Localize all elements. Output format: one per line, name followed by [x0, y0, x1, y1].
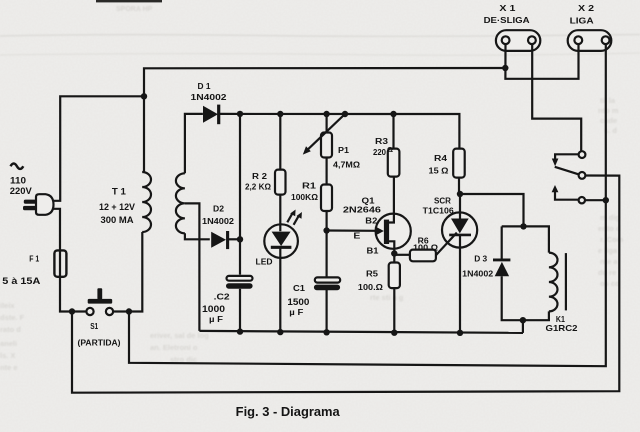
- svg-text:µ F: µ F: [209, 314, 223, 324]
- svg-text:15 Ω: 15 Ω: [429, 166, 449, 176]
- svg-text:ento d: ento d: [598, 224, 621, 233]
- svg-text:D 3: D 3: [474, 253, 487, 263]
- svg-text:R1: R1: [302, 180, 316, 190]
- svg-text:S1: S1: [90, 322, 98, 331]
- svg-text:100.Ω: 100.Ω: [358, 282, 383, 292]
- svg-text:K1: K1: [556, 315, 565, 324]
- svg-text:Ω: Ω: [387, 145, 393, 154]
- svg-text:nte e: nte e: [0, 363, 18, 372]
- svg-text:5 à 15A: 5 à 15A: [2, 276, 40, 286]
- svg-text:2N2646: 2N2646: [343, 205, 381, 215]
- svg-text:an. Eletroni o: an. Eletroni o: [150, 343, 198, 352]
- svg-text:1N4002: 1N4002: [191, 92, 227, 102]
- svg-text:LED: LED: [256, 257, 273, 267]
- svg-text:R 2: R 2: [252, 171, 267, 181]
- svg-text:220V: 220V: [10, 186, 33, 196]
- svg-text:DE·SLIGA: DE·SLIGA: [484, 15, 530, 25]
- svg-text:T 1: T 1: [112, 187, 126, 197]
- svg-text:B1: B1: [367, 246, 379, 256]
- svg-text:100KΩ: 100KΩ: [291, 192, 318, 202]
- svg-text:P1: P1: [338, 145, 349, 155]
- svg-text:µ F: µ F: [289, 307, 303, 317]
- svg-text:R4: R4: [434, 153, 447, 163]
- svg-text:X 2: X 2: [578, 3, 594, 13]
- svg-text:4,7MΩ: 4,7MΩ: [333, 160, 360, 170]
- svg-text:D2: D2: [213, 203, 224, 213]
- svg-text:do re: do re: [598, 268, 616, 277]
- svg-text:T1C106: T1C106: [423, 206, 454, 216]
- svg-text:e liga: e liga: [598, 246, 618, 255]
- svg-text:cade: cade: [600, 116, 617, 125]
- svg-text:ls. X: ls. X: [0, 351, 15, 360]
- svg-text:eriver, sal de log: eriver, sal de log: [150, 331, 209, 340]
- svg-text:ileix: ileix: [0, 301, 15, 310]
- svg-text:nte a: nte a: [600, 257, 618, 266]
- svg-text:nto m: nto m: [598, 106, 619, 115]
- svg-text:300 MA: 300 MA: [101, 215, 134, 225]
- svg-text:1000: 1000: [202, 304, 225, 314]
- svg-text:F 1: F 1: [29, 255, 39, 264]
- svg-text:1N4002: 1N4002: [202, 216, 234, 226]
- svg-text:(PARTIDA): (PARTIDA): [78, 338, 121, 348]
- svg-text:rte sti a g: rte sti a g: [370, 293, 404, 302]
- svg-text:1N4002: 1N4002: [462, 268, 493, 278]
- svg-text:R5: R5: [366, 269, 378, 279]
- svg-text:X 1: X 1: [499, 3, 515, 13]
- svg-text:12 + 12V: 12 + 12V: [99, 202, 136, 212]
- svg-text:2,2 KΩ: 2,2 KΩ: [245, 182, 271, 192]
- svg-text:E: E: [353, 231, 360, 241]
- svg-text:os co: os co: [600, 279, 620, 288]
- svg-text:LIGA: LIGA: [570, 16, 594, 26]
- svg-text:220: 220: [373, 147, 386, 157]
- svg-text:C1: C1: [293, 283, 305, 293]
- svg-text:m dig: m dig: [600, 213, 620, 222]
- svg-text:D 1: D 1: [198, 81, 211, 91]
- svg-text:til la: til la: [600, 96, 616, 105]
- svg-text:rato d: rato d: [0, 325, 21, 334]
- svg-text:G1RC2: G1RC2: [546, 324, 579, 333]
- svg-text:SPORA HP: SPORA HP: [116, 6, 153, 13]
- svg-text:100 Ω: 100 Ω: [413, 244, 438, 253]
- svg-text:.C2: .C2: [214, 291, 230, 301]
- svg-text:aneli: aneli: [0, 339, 17, 348]
- svg-text:SCR: SCR: [434, 196, 452, 206]
- svg-text:B2: B2: [365, 216, 377, 226]
- svg-text:dste. F: dste. F: [0, 313, 25, 322]
- svg-text:Fig. 3 - Diagrama: Fig. 3 - Diagrama: [236, 405, 341, 419]
- svg-text:110: 110: [10, 176, 26, 186]
- svg-text:1500: 1500: [287, 297, 309, 307]
